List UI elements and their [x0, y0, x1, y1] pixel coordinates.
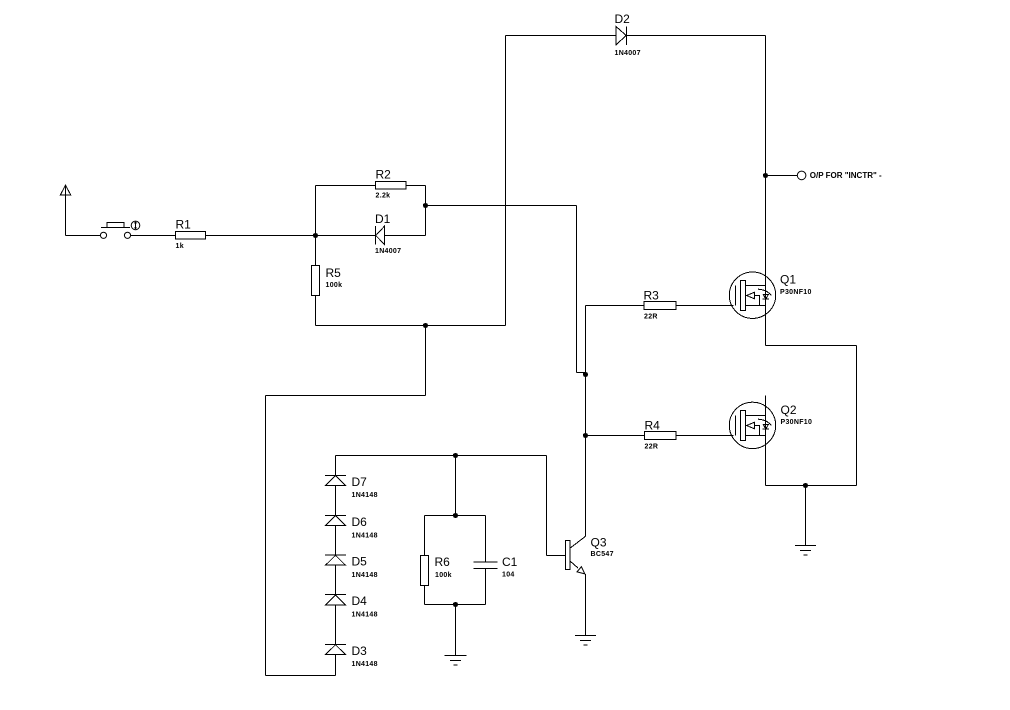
svg-text:D4: D4: [352, 594, 368, 608]
svg-text:P30NF10: P30NF10: [780, 289, 812, 296]
wire D2 left vertical: [505, 36, 507, 326]
svg-text:C1: C1: [502, 555, 518, 569]
wire R3 left: [586, 305, 645, 307]
node gate bus R4: [583, 433, 588, 438]
wire main right vertical: [765, 36, 767, 346]
svg-text:1N4148: 1N4148: [352, 572, 378, 579]
wire R4 left: [586, 435, 645, 437]
svg-text:R3: R3: [644, 289, 660, 303]
wire chain D6-D5 segment: [335, 526, 337, 555]
wire trigger drop to Q3 base: [546, 456, 548, 556]
diode D3: [325, 645, 346, 655]
svg-text:2.2k: 2.2k: [376, 192, 391, 199]
svg-text:D7: D7: [352, 475, 368, 489]
svg-text:D1: D1: [375, 212, 391, 226]
wire chain D4-D3 segment: [335, 605, 337, 645]
svg-text:R5: R5: [326, 266, 342, 280]
wire chain bottom segment: [335, 655, 337, 676]
svg-text:22R: 22R: [644, 313, 658, 320]
svg-text:Q1: Q1: [780, 273, 796, 287]
wire Q1 source to right: [766, 345, 857, 347]
wire R2 right: [406, 185, 426, 187]
wire right branch vertical: [856, 346, 858, 486]
wire top rail right: [627, 35, 766, 37]
node gate bus upper: [583, 372, 588, 377]
diode D7: [325, 476, 346, 486]
wire switch to R1: [131, 235, 176, 237]
wire R6 bottom lead: [424, 586, 426, 605]
diode D2: [616, 26, 627, 45]
svg-text:R4: R4: [645, 419, 661, 433]
node trigger rail: [453, 453, 458, 458]
svg-text:1N4148: 1N4148: [352, 661, 378, 668]
wire Q1 source down: [765, 318, 767, 345]
wire Q3 emitter down: [585, 574, 587, 636]
wire Q2 drain-source vertical: [765, 396, 767, 486]
diode D5: [325, 555, 346, 565]
wire to output terminal: [766, 175, 798, 177]
svg-text:BC547: BC547: [591, 551, 614, 558]
wire bottom rail of input block: [316, 325, 506, 327]
transistor Q2 MOSFET: [729, 402, 775, 448]
resistor R6: [421, 556, 429, 586]
wire vertical drop to gate bus: [576, 206, 578, 373]
wire antenna to switch: [66, 235, 101, 237]
wire R6 top lead: [424, 516, 426, 556]
svg-text:1N4148: 1N4148: [352, 611, 378, 618]
svg-text:R2: R2: [376, 168, 392, 182]
wire vertical R2-D1: [425, 186, 427, 236]
wire gate bus vertical: [585, 306, 587, 537]
wire R4 to Q2 gate: [676, 435, 734, 437]
wire chain D7-D6 segment: [335, 486, 337, 516]
svg-text:1N4007: 1N4007: [615, 50, 641, 57]
svg-text:1N4148: 1N4148: [352, 492, 378, 499]
resistor R3: [644, 302, 676, 310]
node main junction: [313, 233, 318, 238]
wire D1 right: [385, 235, 426, 237]
wire antenna vertical: [65, 186, 67, 236]
wire ground stem Q2: [805, 486, 807, 546]
wire RC bottom rail: [425, 604, 486, 606]
svg-text:1N4148: 1N4148: [352, 532, 378, 539]
diode D4: [325, 595, 346, 605]
svg-text:1k: 1k: [176, 243, 184, 250]
diode D1: [376, 226, 385, 245]
node bottom rail junction: [423, 323, 428, 328]
svg-text:O/P FOR "INCTR" -: O/P FOR "INCTR" -: [810, 171, 882, 180]
wire RC tap: [455, 456, 457, 516]
wire node to R3 column: [426, 205, 577, 207]
svg-text:D6: D6: [352, 515, 368, 529]
wire Q3 base lead: [547, 555, 566, 557]
node R2/D1 junction: [423, 203, 428, 208]
wire far-left vertical: [265, 396, 267, 676]
wire bottom rail Q2: [766, 485, 857, 487]
svg-text:100k: 100k: [435, 572, 452, 579]
resistor R1: [176, 232, 206, 240]
wire C1 bottom lead: [485, 569, 487, 605]
wire RC top rail: [425, 515, 486, 517]
ground G1: [575, 636, 596, 646]
diode D6: [325, 516, 346, 526]
wire left vertical R2/R5: [315, 186, 317, 266]
svg-text:22R: 22R: [645, 444, 659, 451]
svg-text:100k: 100k: [326, 282, 343, 289]
svg-text:R1: R1: [176, 218, 192, 232]
svg-text:Q2: Q2: [781, 403, 797, 417]
wire chain top segment: [335, 456, 337, 476]
resistor R2: [376, 182, 407, 190]
wire C1 top lead: [485, 516, 487, 563]
ground G2: [445, 656, 467, 666]
transistor Q1 MOSFET: [729, 272, 775, 318]
svg-text:104: 104: [502, 572, 515, 579]
wire ground stem RC: [455, 605, 457, 656]
svg-text:D5: D5: [352, 555, 368, 569]
wire R5 bottom: [315, 296, 317, 326]
switch S1 pushbutton: [100, 221, 139, 238]
antenna flag A1: [60, 185, 71, 195]
wire R3 to Q1 gate: [676, 305, 734, 307]
svg-text:D2: D2: [615, 12, 631, 26]
svg-text:1N4007: 1N4007: [375, 248, 401, 255]
svg-text:R6: R6: [435, 555, 451, 569]
node ground junction Q2: [803, 483, 808, 488]
wire R2 left: [316, 185, 376, 187]
wire from node down-left: [425, 326, 427, 396]
wire left run: [266, 395, 426, 397]
transistor Q3 BJT: [566, 536, 586, 574]
wire trigger rail: [336, 455, 547, 457]
terminal O/P circle: [797, 171, 806, 180]
node output junction: [763, 173, 768, 178]
svg-text:P30NF10: P30NF10: [781, 419, 813, 426]
wire R1 to node: [206, 235, 376, 237]
svg-text:Q3: Q3: [591, 536, 607, 550]
resistor R4: [645, 432, 677, 440]
wire bottom run: [266, 675, 336, 677]
resistor R5: [312, 266, 320, 296]
ground G3: [795, 546, 816, 556]
wire top rail left: [506, 35, 616, 37]
node RC bottom: [453, 602, 458, 607]
svg-text:D3: D3: [352, 644, 368, 658]
wire jog: [577, 372, 586, 374]
wire chain D5-D4 segment: [335, 565, 337, 594]
capacitor C1: [474, 562, 498, 569]
node RC top: [453, 513, 458, 518]
